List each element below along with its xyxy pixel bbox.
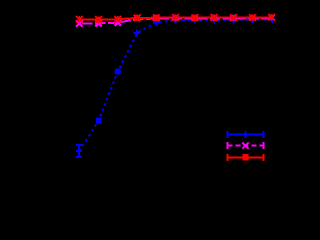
blue plus markers (76, 16, 275, 155)
legend entry 1: blue errorbar sample (228, 131, 264, 138)
legend entry 3 square marker (242, 154, 248, 160)
magenta X markers (76, 15, 274, 27)
legend entry 2: magenta dashed sample with X marker (228, 142, 264, 149)
red star markers (76, 14, 275, 23)
blue series line (dashed) (79, 19, 271, 151)
magenta series line (dashed) (79, 18, 271, 23)
red series line (solid) (79, 17, 271, 19)
legend entry 3: red sample with filled square marker (228, 154, 264, 161)
blue error bar point 1 (76, 145, 82, 157)
blue error bar point 3 (115, 69, 121, 73)
blue error bar point 2 (96, 119, 102, 122)
